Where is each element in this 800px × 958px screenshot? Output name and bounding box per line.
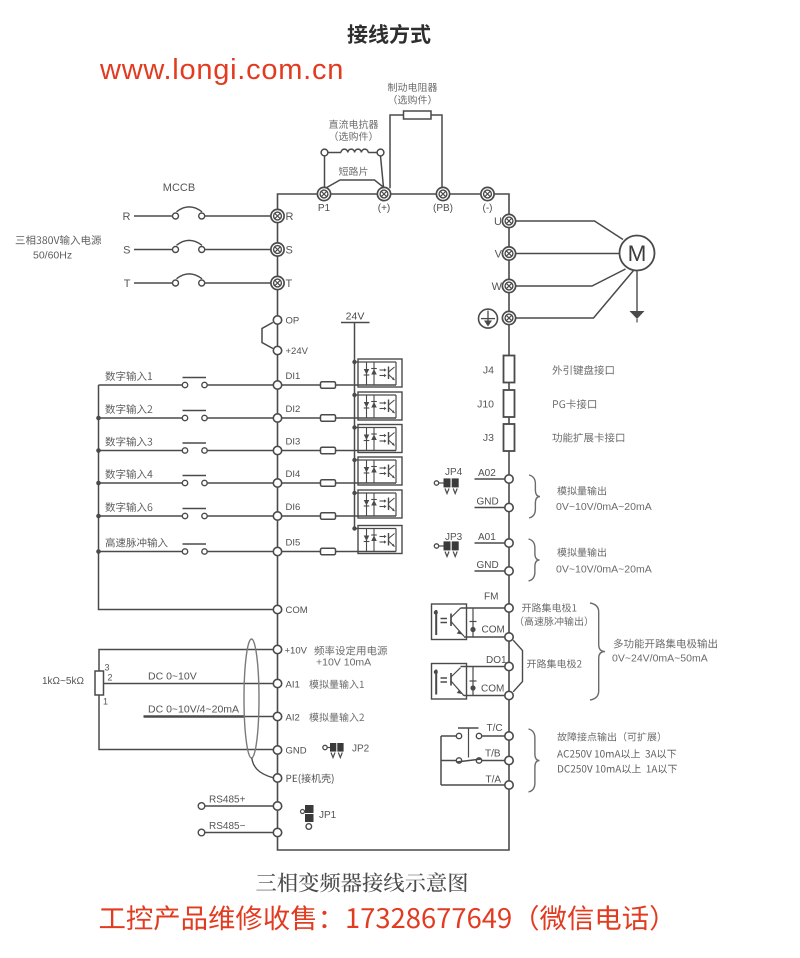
resistor DI4 bbox=[321, 480, 336, 487]
wire DI2 internal bbox=[282, 417, 321, 419]
annotation high speed pulse out bbox=[521, 616, 587, 626]
wire TB a bbox=[441, 760, 456, 762]
transistor box DO1 bbox=[432, 664, 467, 700]
switch DI2 contact a bbox=[182, 415, 187, 420]
wire DI2 to optocoupler bbox=[336, 417, 397, 419]
wire TC b bbox=[482, 735, 505, 737]
svg-text:JP1: JP1 bbox=[319, 810, 337, 821]
junction bus DI5 bbox=[96, 549, 101, 554]
wire T input bbox=[134, 282, 172, 284]
svg-text:J3: J3 bbox=[483, 432, 494, 444]
annotation J3 bbox=[552, 433, 624, 443]
svg-text:OP: OP bbox=[286, 316, 300, 327]
breaker MCCB pole T contact a bbox=[173, 280, 179, 286]
relay TC contact a bbox=[456, 733, 461, 738]
breaker MCCB pole R blade bbox=[177, 207, 203, 212]
optocoupler DI4 bbox=[352, 457, 402, 485]
wire reactor to P1 bbox=[324, 156, 326, 188]
svg-text:T/B: T/B bbox=[485, 749, 501, 760]
inverter enclosure outline bbox=[278, 194, 510, 850]
svg-text:DI3: DI3 bbox=[286, 437, 301, 448]
resistor DI5 bbox=[321, 548, 336, 555]
wire TB b bbox=[482, 760, 505, 762]
braking resistor label 2 bbox=[394, 95, 430, 105]
svg-text:DI5: DI5 bbox=[286, 538, 301, 549]
terminal A01 bbox=[505, 539, 513, 547]
breaker MCCB pole T blade bbox=[177, 274, 203, 279]
potentiometer RP1 bbox=[95, 671, 104, 695]
terminal (+) bbox=[377, 187, 390, 200]
braking resistor label bbox=[388, 83, 437, 92]
svg-text:RS485−: RS485− bbox=[209, 821, 246, 832]
svg-text:+10V: +10V bbox=[285, 646, 308, 657]
wire R input bbox=[134, 215, 172, 217]
optocoupler DI2 bbox=[352, 392, 402, 420]
wire DI6 to optocoupler bbox=[336, 515, 397, 517]
terminal OP bbox=[273, 316, 281, 324]
svg-text:GND: GND bbox=[477, 497, 499, 508]
svg-text:2: 2 bbox=[108, 673, 113, 683]
terminal (PB) bbox=[436, 187, 449, 200]
annotation AI1 bbox=[309, 680, 364, 689]
breaker MCCB pole S blade bbox=[177, 240, 203, 245]
wire DI4 internal bbox=[282, 482, 321, 484]
wire DI4 to optocoupler bbox=[336, 482, 397, 484]
svg-text:DC 0~10V: DC 0~10V bbox=[148, 671, 197, 683]
terminal T bbox=[271, 276, 284, 289]
switch DI3 blade bbox=[183, 442, 207, 444]
DC reactor label bbox=[329, 120, 378, 129]
terminal DI2 bbox=[273, 414, 281, 422]
terminal S bbox=[271, 243, 284, 256]
svg-text:1: 1 bbox=[103, 697, 108, 707]
jumper JP1 bbox=[301, 805, 314, 829]
svg-text:DI1: DI1 bbox=[286, 371, 301, 382]
switch DI4 blade bbox=[183, 475, 207, 477]
junction bus DI3 bbox=[96, 448, 101, 453]
wire FM COM bbox=[464, 636, 505, 638]
terminal V bbox=[502, 247, 515, 260]
wire AI2 bbox=[245, 716, 273, 718]
wire DI1 from bus bbox=[99, 384, 183, 386]
wire DI4 to terminal bbox=[207, 482, 273, 484]
svg-text:R: R bbox=[123, 211, 131, 223]
switch DI2 contact b bbox=[202, 415, 207, 420]
wire DI4 from bus bbox=[99, 482, 183, 484]
svg-text:0V~10V/0mA~20mA: 0V~10V/0mA~20mA bbox=[556, 564, 652, 576]
reactor terminal left bbox=[321, 149, 328, 156]
wire TC a bbox=[441, 735, 456, 737]
terminal DI4 bbox=[273, 479, 281, 487]
svg-text:P1: P1 bbox=[318, 203, 331, 214]
clamp FM bbox=[470, 608, 477, 637]
annotation analog out 1 bbox=[557, 486, 606, 495]
wire A01 stub bbox=[475, 542, 505, 544]
wire DI3 internal bbox=[282, 450, 321, 452]
wire reactor right lead bbox=[368, 152, 377, 154]
annotation relay bbox=[557, 732, 660, 742]
svg-text:T: T bbox=[286, 278, 293, 290]
terminal +24V bbox=[273, 346, 281, 354]
junction bus DI6 bbox=[96, 514, 101, 519]
junction bus DI4 bbox=[96, 481, 101, 486]
wire OP to +24V link bbox=[262, 322, 273, 348]
terminal RS485+ bbox=[273, 802, 281, 810]
24V rail bbox=[354, 323, 356, 529]
wire DI3 to terminal bbox=[207, 450, 273, 452]
annotation analog out 2 bbox=[557, 548, 606, 557]
wire pot to GND bbox=[99, 695, 273, 750]
terminal DI1 bbox=[273, 381, 281, 389]
svg-text:24V: 24V bbox=[346, 311, 365, 323]
wire FM bbox=[461, 607, 505, 609]
wire DI1 to terminal bbox=[207, 384, 273, 386]
terminal DO1 bbox=[505, 662, 513, 670]
connector J4 bbox=[504, 356, 515, 383]
annotation J10 bbox=[553, 399, 596, 409]
wire DO1 COM bbox=[464, 695, 505, 697]
terminal DI6 bbox=[273, 512, 281, 520]
relay left bus bbox=[440, 736, 442, 785]
svg-text:U: U bbox=[494, 216, 502, 228]
svg-text:RS485+: RS485+ bbox=[209, 795, 246, 806]
resistor DI2 bbox=[321, 415, 336, 422]
wire TA bbox=[441, 784, 505, 786]
relay link bbox=[468, 728, 470, 758]
svg-text:1kΩ~5kΩ: 1kΩ~5kΩ bbox=[42, 676, 84, 687]
phone line bbox=[100, 905, 658, 931]
braking resistor R-brake bbox=[404, 111, 432, 119]
svg-text:T: T bbox=[124, 278, 131, 290]
wire +10V bbox=[99, 650, 273, 672]
jumper JP4 bbox=[434, 478, 458, 493]
wire GND2 stub bbox=[475, 570, 505, 572]
annotation relay DC bbox=[558, 764, 677, 773]
wire DI2 from bus bbox=[99, 417, 183, 419]
svg-text:W: W bbox=[492, 281, 503, 293]
svg-text:www.longi.com.cn: www.longi.com.cn bbox=[99, 54, 344, 86]
svg-text:+24V: +24V bbox=[286, 346, 309, 357]
relay TB blade bbox=[457, 759, 482, 762]
terminal DI3 bbox=[273, 446, 281, 454]
switch DI5 contact a bbox=[182, 549, 187, 554]
annotation relay AC bbox=[557, 749, 676, 758]
wire brake left bbox=[390, 115, 404, 188]
svg-text:M: M bbox=[628, 241, 647, 266]
relay TC contact b bbox=[476, 733, 481, 738]
terminal PE output bbox=[502, 311, 515, 324]
svg-text:3: 3 bbox=[105, 663, 110, 673]
svg-text:S: S bbox=[123, 245, 130, 257]
wire E to motor bbox=[516, 271, 634, 319]
wire AI2 thick bbox=[144, 715, 246, 718]
svg-text:DO1: DO1 bbox=[486, 655, 507, 666]
terminal T/A bbox=[505, 781, 513, 789]
wire AI1 wiper bbox=[104, 683, 274, 685]
wire S to terminal bbox=[205, 249, 271, 251]
switch DI1 contact b bbox=[202, 382, 207, 387]
wire DI3 to optocoupler bbox=[336, 450, 397, 452]
annotation open collector 1 bbox=[522, 603, 576, 612]
breaker MCCB pole S contact a bbox=[173, 247, 179, 253]
label 数字输入1 bbox=[105, 371, 152, 381]
switch DI6 contact b bbox=[202, 513, 207, 518]
switch DI4 contact a bbox=[182, 480, 187, 485]
svg-text:JP4: JP4 bbox=[445, 467, 463, 478]
svg-text:DI4: DI4 bbox=[286, 469, 301, 480]
terminal U bbox=[502, 214, 515, 227]
svg-text:GND: GND bbox=[477, 560, 499, 571]
svg-text:FM: FM bbox=[484, 592, 498, 603]
wire COM bypass bbox=[513, 640, 522, 692]
wire DI5 to terminal bbox=[207, 551, 273, 553]
annotation +10V supply bbox=[314, 646, 387, 656]
wire reactor to plus bbox=[381, 156, 384, 188]
brace analog out 2 bbox=[529, 539, 540, 581]
svg-text:JP3: JP3 bbox=[445, 532, 463, 543]
breaker MCCB pole S contact b bbox=[199, 247, 205, 253]
svg-text:(+): (+) bbox=[378, 203, 391, 214]
svg-text:JP2: JP2 bbox=[352, 744, 370, 755]
DC reactor label 2 bbox=[335, 131, 371, 141]
switch DI1 contact a bbox=[182, 382, 187, 387]
svg-text:S: S bbox=[286, 244, 293, 256]
wire shield to PE bbox=[252, 758, 273, 778]
wire R to terminal bbox=[205, 215, 271, 217]
terminal T/C bbox=[505, 732, 513, 740]
transistor box FM bbox=[432, 604, 467, 640]
svg-text:MCCB: MCCB bbox=[163, 182, 195, 194]
svg-text:(PB): (PB) bbox=[433, 203, 453, 214]
switch DI5 blade bbox=[183, 543, 207, 545]
terminal (-) bbox=[481, 187, 494, 200]
relay TB contact a bbox=[456, 758, 461, 763]
svg-text:0V~24V/0mA~50mA: 0V~24V/0mA~50mA bbox=[612, 653, 708, 665]
terminal PE bbox=[273, 774, 281, 782]
annotation multi function bbox=[614, 639, 717, 649]
terminal AI1 bbox=[273, 679, 281, 687]
relay TB contact b bbox=[476, 758, 481, 763]
label three-phase supply bbox=[16, 235, 102, 245]
connector J10 bbox=[504, 390, 515, 417]
annotation J4 bbox=[552, 365, 613, 375]
optocoupler DI1 bbox=[352, 359, 402, 387]
label 数字输入3 bbox=[105, 437, 152, 447]
DC reactor coil L1 bbox=[341, 149, 368, 152]
svg-text:COM: COM bbox=[482, 625, 505, 636]
svg-text:T/C: T/C bbox=[487, 723, 503, 734]
label 数字输入4 bbox=[105, 469, 152, 479]
wire DI6 from bus bbox=[99, 515, 183, 517]
wire DI1 internal bbox=[282, 384, 321, 386]
wire DI5 from bus bbox=[99, 551, 183, 553]
svg-text:T/A: T/A bbox=[486, 775, 502, 786]
svg-text:R: R bbox=[286, 211, 294, 223]
terminal COM fm bbox=[505, 633, 513, 641]
svg-text:J4: J4 bbox=[483, 365, 494, 377]
breaker MCCB pole R contact a bbox=[173, 213, 179, 219]
wire DI3 from bus bbox=[99, 450, 183, 452]
svg-text:J10: J10 bbox=[477, 399, 494, 411]
label 数字输入6 bbox=[105, 502, 152, 512]
wire S input bbox=[134, 249, 172, 251]
optocoupler DI3 bbox=[352, 425, 402, 453]
shield ellipse bbox=[244, 639, 259, 758]
wire A02 stub bbox=[475, 478, 505, 480]
brace relay bbox=[529, 729, 540, 792]
terminal A02 bbox=[505, 475, 513, 483]
svg-text:DI2: DI2 bbox=[286, 404, 301, 415]
wire DO1 bbox=[461, 666, 505, 668]
brace multi function bbox=[590, 603, 605, 700]
caption bbox=[256, 872, 467, 892]
svg-text:COM: COM bbox=[481, 684, 504, 695]
annotation AI2 bbox=[309, 713, 364, 722]
breaker MCCB pole R contact b bbox=[199, 213, 205, 219]
optocoupler DI6 bbox=[352, 490, 402, 518]
motor ground stem bbox=[636, 271, 638, 312]
wire reactor left lead bbox=[328, 152, 341, 154]
optocoupler DI5 bbox=[352, 526, 402, 554]
switch DI6 blade bbox=[183, 508, 207, 510]
switch DI5 contact b bbox=[202, 549, 207, 554]
terminal P1 bbox=[317, 187, 330, 200]
terminal GND analog bbox=[273, 746, 281, 754]
wire DI6 internal bbox=[282, 515, 321, 517]
digital input common bus bbox=[99, 385, 274, 610]
terminal GND1 bbox=[505, 503, 513, 511]
svg-text:DI6: DI6 bbox=[286, 502, 301, 513]
svg-text:50/60Hz: 50/60Hz bbox=[33, 250, 72, 262]
svg-text:(-): (-) bbox=[483, 203, 493, 214]
terminal DI5 bbox=[273, 547, 281, 555]
terminal AI2 bbox=[273, 712, 281, 720]
svg-text:A02: A02 bbox=[478, 468, 496, 479]
wire DI2 to terminal bbox=[207, 417, 273, 419]
wire V to motor bbox=[516, 253, 620, 255]
wire RS485- bbox=[205, 832, 273, 834]
resistor DI3 bbox=[321, 447, 336, 454]
terminal COM bbox=[273, 605, 281, 613]
motor ground arrow bbox=[630, 311, 645, 319]
svg-text:COM: COM bbox=[286, 605, 308, 616]
terminal R bbox=[271, 209, 284, 222]
motor ground stub bbox=[636, 319, 638, 323]
wire DI5 internal bbox=[282, 551, 321, 553]
switch DI2 blade bbox=[183, 410, 207, 412]
wire DI5 to optocoupler bbox=[336, 551, 397, 553]
label PE bbox=[287, 774, 334, 784]
svg-text:AI2: AI2 bbox=[286, 713, 300, 724]
wire T to terminal bbox=[205, 282, 271, 284]
svg-text:+10V 10mA: +10V 10mA bbox=[316, 657, 371, 669]
wire DI1 to optocoupler bbox=[336, 384, 397, 386]
jumper JP3 bbox=[434, 541, 458, 556]
24V label underline bbox=[341, 322, 370, 324]
wire U to motor bbox=[516, 221, 623, 240]
svg-text:DC 0~10V/4~20mA: DC 0~10V/4~20mA bbox=[148, 704, 239, 716]
wire GND1 stub bbox=[475, 507, 505, 509]
earth symbol bbox=[479, 309, 498, 328]
shorting bar label bbox=[339, 167, 368, 176]
terminal W bbox=[502, 279, 515, 292]
relay TC blade bbox=[458, 727, 479, 729]
breaker MCCB pole T contact b bbox=[199, 280, 205, 286]
switch DI3 contact a bbox=[182, 448, 187, 453]
annotation open collector 2 bbox=[527, 659, 582, 668]
resistor DI1 bbox=[321, 382, 336, 389]
clamp DO1 bbox=[470, 667, 477, 696]
switch DI4 contact b bbox=[202, 480, 207, 485]
switch DI1 blade bbox=[183, 377, 207, 379]
wire brake right bbox=[431, 115, 442, 187]
wire DI6 to terminal bbox=[207, 515, 273, 517]
connector J3 bbox=[504, 424, 515, 451]
RS485+ open end bbox=[198, 803, 205, 810]
motor M1 bbox=[620, 236, 655, 271]
terminal FM bbox=[505, 604, 513, 612]
terminal GND2 bbox=[505, 567, 513, 575]
resistor DI6 bbox=[321, 513, 336, 520]
svg-text:A01: A01 bbox=[478, 532, 496, 543]
switch DI6 contact a bbox=[182, 513, 187, 518]
label 数字输入2 bbox=[105, 404, 152, 414]
label 高速脉冲输入 bbox=[106, 538, 168, 548]
svg-text:GND: GND bbox=[286, 746, 307, 757]
terminal T/B bbox=[505, 756, 513, 764]
switch DI3 contact b bbox=[202, 448, 207, 453]
brace analog out 1 bbox=[529, 475, 540, 518]
RS485- open end bbox=[198, 829, 205, 836]
title bbox=[347, 24, 430, 44]
terminal RS485- bbox=[273, 828, 281, 836]
reactor terminal right bbox=[377, 149, 384, 156]
shorting bar bbox=[325, 180, 385, 189]
terminal COM do bbox=[505, 691, 513, 699]
wire RS485+ bbox=[205, 805, 273, 807]
wire W to motor bbox=[516, 269, 626, 286]
svg-text:AI1: AI1 bbox=[286, 680, 300, 691]
terminal +10V bbox=[273, 645, 281, 653]
jumper JP2 bbox=[323, 743, 344, 758]
svg-text:0V~10V/0mA~20mA: 0V~10V/0mA~20mA bbox=[556, 501, 652, 513]
svg-text:V: V bbox=[495, 249, 503, 261]
junction bus DI2 bbox=[96, 416, 101, 421]
